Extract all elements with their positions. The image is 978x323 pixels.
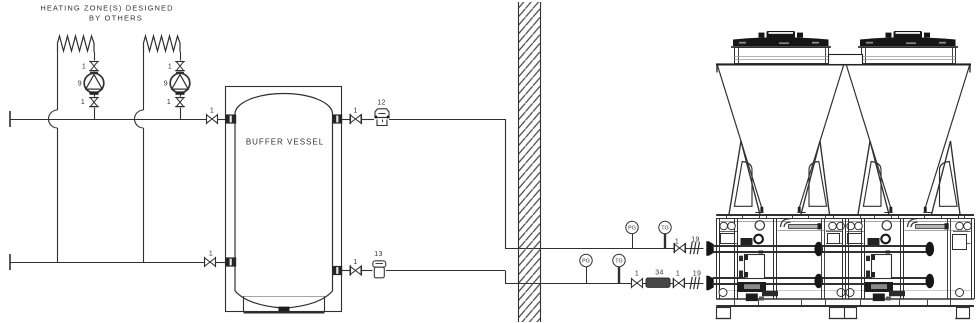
svg-text:1: 1 [82,64,86,71]
svg-text:1: 1 [353,108,357,115]
svg-text:1: 1 [81,99,85,106]
svg-text:1: 1 [209,251,213,258]
svg-text:19: 19 [693,271,701,278]
svg-text:9: 9 [78,81,82,88]
svg-text:9: 9 [164,81,168,88]
svg-text:1: 1 [167,99,171,106]
svg-text:34: 34 [655,270,663,277]
svg-text:1: 1 [210,108,214,115]
svg-text:13: 13 [374,251,382,258]
svg-text:BY OTHERS: BY OTHERS [89,14,143,23]
svg-text:PG: PG [628,226,636,232]
svg-text:12: 12 [377,100,385,107]
svg-text:1: 1 [168,64,172,71]
svg-text:TG: TG [615,259,623,265]
svg-text:HEATING ZONE(S) DESIGNED: HEATING ZONE(S) DESIGNED [40,4,173,13]
svg-text:1: 1 [675,239,679,246]
svg-text:1: 1 [676,271,680,278]
svg-text:1: 1 [635,271,639,278]
svg-text:1: 1 [353,259,357,266]
svg-text:BUFFER VESSEL: BUFFER VESSEL [246,138,324,147]
svg-text:TG: TG [661,226,669,232]
svg-text:19: 19 [691,237,699,244]
svg-text:PG: PG [582,259,590,265]
